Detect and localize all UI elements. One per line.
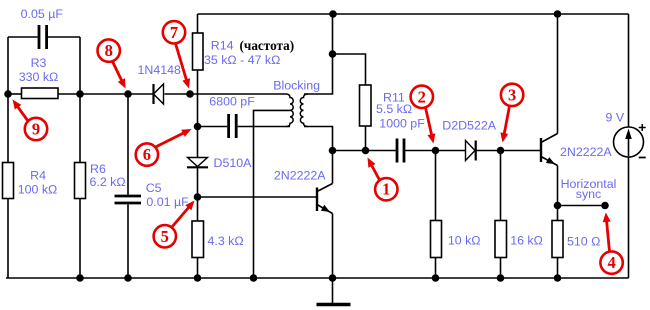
svg-text:2N2222A: 2N2222A	[274, 169, 326, 183]
wire: 6800pF to transformer bottom terminal	[238, 126, 290, 128]
junction node dot 16 at 80,278	[76, 274, 84, 282]
svg-text:R6: R6	[90, 162, 106, 176]
callout circle 5	[154, 225, 176, 247]
transistor Q2 collector diagonal	[541, 134, 558, 143]
junction node dot 9 at 197.5,197	[194, 193, 202, 201]
svg-text:(частота): (частота)	[240, 38, 295, 53]
wire: 9V bottom to bus	[628, 156, 630, 278]
transistor Q2 emitter diagonal with arrow	[541, 157, 558, 166]
wire: R14 top lead	[197, 14, 199, 33]
transistor Q1 emitter diagonal with arrow	[317, 205, 333, 214]
svg-text:0.05 µF: 0.05 µF	[21, 7, 64, 21]
svg-text:16 kΩ: 16 kΩ	[510, 234, 543, 248]
svg-text:R14: R14	[211, 38, 234, 52]
callout arrow 1	[371, 163, 380, 180]
resistor R4 100k	[3, 163, 14, 199]
svg-text:7: 7	[170, 23, 178, 42]
svg-text:D510A: D510A	[214, 156, 253, 170]
9V internal arrow	[628, 133, 630, 156]
svg-text:6800 pF: 6800 pF	[209, 95, 255, 109]
junction node dot 17 at 128,278	[124, 274, 132, 282]
junction node dot 1 at 8,94	[4, 90, 12, 98]
wire: 16k bottom lead	[500, 258, 502, 279]
wire: node 1 line to 1000pF	[333, 150, 396, 152]
callout circle 8	[98, 39, 120, 61]
svg-text:D2D522A: D2D522A	[442, 118, 496, 132]
wire: node 3 vertical to 16k	[500, 151, 502, 221]
wire: main node between 1N4148 and transformer	[165, 93, 287, 95]
wire: top-left loop right vertical (x=80)	[79, 37, 81, 163]
svg-text:330 kΩ: 330 kΩ	[19, 70, 59, 84]
transformer T1 right winding	[300, 94, 308, 127]
resistor R11 5.5k	[360, 85, 372, 126]
svg-text:1000 pF: 1000 pF	[379, 117, 425, 131]
transformer T1 Blocking: left winding (two sections)	[286, 94, 293, 127]
svg-text:C5: C5	[146, 181, 162, 195]
transistor Q1 2N2222A base bar	[316, 188, 318, 212]
ground symbol	[317, 278, 351, 305]
resistor 510 ohm	[552, 221, 563, 258]
wire: D2D522A cathode to Q2 base	[477, 150, 541, 152]
svg-text:2N2222A: 2N2222A	[560, 145, 612, 159]
junction node dot 20 at 332.5,278	[329, 274, 337, 282]
svg-text:1: 1	[382, 180, 390, 199]
svg-text:9 V: 9 V	[606, 111, 625, 125]
callout arrow 8	[113, 62, 123, 83]
junction node dot 15 at 605,205.5	[601, 202, 609, 210]
callout circle 3	[501, 84, 523, 106]
junction node dot 22 at 500.5,278	[497, 274, 505, 282]
wire: Q1 base line from node 5	[198, 196, 317, 198]
wire: C5 bottom lead to bus	[127, 204, 129, 278]
wire: R14 bottom lead	[197, 70, 199, 94]
junction node dot 3 at 128,94	[124, 90, 132, 98]
junction node dot 12 at 435.5,150.5	[432, 147, 440, 155]
wire: 6800pF branch from node 6	[198, 126, 228, 128]
junction node dot 23 at 557.5,278	[554, 274, 562, 282]
callout arrow 5	[172, 206, 191, 228]
resistor R14 35k-47k	[193, 33, 204, 70]
wire: Q1 collector vertical	[332, 151, 334, 184]
callout circle 2	[411, 86, 433, 108]
wire: 510 bottom lead	[557, 258, 559, 279]
wire: top-left loop top with 0.05uF gap	[8, 36, 38, 38]
svg-text:4: 4	[607, 253, 615, 272]
9V plus sign	[639, 124, 646, 131]
junction node dot 18 at 197.5,278	[194, 274, 202, 282]
svg-text:6.2 kΩ: 6.2 kΩ	[90, 175, 126, 189]
svg-text:9: 9	[32, 120, 40, 139]
svg-text:5: 5	[161, 227, 169, 246]
resistor 10k	[431, 221, 442, 258]
wire: R6 bottom lead to bus	[79, 199, 81, 279]
resistor 4.3k	[192, 221, 204, 258]
svg-text:100 kΩ: 100 kΩ	[18, 183, 58, 197]
wire: D510A cathode to node 5 junction	[197, 168, 199, 221]
wire: node 2 vertical to 10k	[435, 151, 437, 221]
capacitor 6800 pF	[229, 114, 237, 138]
callout circle 6	[136, 143, 158, 165]
wire: top rail y=14	[198, 13, 629, 15]
wire: horizontal sync stub	[558, 205, 606, 207]
svg-text:R4: R4	[30, 168, 46, 182]
wire: R11 top lead tee to x=332.5	[333, 54, 366, 85]
junction node dot 21 at 435.5,278	[432, 274, 440, 282]
wire: Q2 emitter vertical to sync node	[557, 166, 559, 221]
wire: transformer mid-tap line and vertical x=253.5 to bus	[254, 110, 291, 278]
svg-text:Blocking: Blocking	[273, 79, 320, 93]
transistor Q2 2N2222A base bar	[540, 138, 542, 162]
wire: ground bus y=278	[6, 277, 629, 279]
wire: R11 bottom lead	[365, 126, 367, 151]
wire: main node between R3 and 1N4148	[58, 93, 153, 95]
wire: 4.3k bottom lead to bus	[197, 258, 199, 279]
callout circle 4	[600, 251, 622, 273]
resistor R6 6.2k	[75, 163, 86, 199]
capacitor 1000 pF	[397, 139, 404, 163]
svg-text:8: 8	[105, 41, 113, 60]
wire: main horizontal node y=94 left section	[8, 93, 22, 95]
svg-text:1N4148: 1N4148	[138, 63, 182, 77]
svg-text:4.3 kΩ: 4.3 kΩ	[208, 234, 244, 248]
9V minus sign	[639, 157, 646, 159]
callout arrow 2	[426, 108, 433, 138]
wire: Q1 emitter vertical to bus	[332, 214, 334, 279]
resistor R3 330k	[22, 88, 59, 99]
callout circle 9	[25, 118, 47, 140]
junction node dot 2 at 80,94	[76, 90, 84, 98]
battery/source 9V circle	[614, 127, 644, 157]
junction node dot 5 at 333,14	[329, 10, 337, 18]
wire: R4 bottom lead to bus	[7, 199, 9, 279]
wire: vertical x=332.5 top rail to transformer right top	[304, 14, 333, 94]
svg-text:5.5 kΩ: 5.5 kΩ	[376, 102, 412, 116]
capacitor 0.05 uF (top-left)	[39, 25, 47, 49]
junction node dot 7 at 332.5,54	[329, 50, 337, 58]
svg-text:R3: R3	[31, 56, 47, 70]
junction node dot 6 at 557.5,14	[554, 10, 562, 18]
junction node dot 14 at 557.5,205.5	[554, 202, 562, 210]
capacitor C5 0.01uF	[115, 196, 142, 203]
svg-text:10 kΩ: 10 kΩ	[448, 234, 481, 248]
callout arrow 6	[155, 132, 186, 148]
callout arrow 7	[176, 44, 188, 83]
junction node dot 8 at 197.5,126.5	[194, 123, 202, 131]
wire: top-left loop left vertical (x=8)	[7, 37, 9, 163]
junction node dot 4 at 190,94	[186, 90, 194, 98]
svg-text:3: 3	[508, 85, 516, 104]
wire: vertical x=197.5 main node down to D510A	[197, 94, 199, 157]
wire: 1000pF to D2D522A	[405, 150, 465, 152]
resistor 16k	[495, 221, 507, 258]
callout arrow 9	[16, 105, 28, 121]
callout arrow 4	[606, 219, 609, 251]
svg-text:510 Ω: 510 Ω	[567, 235, 600, 249]
svg-text:35 kΩ - 47 kΩ: 35 kΩ - 47 kΩ	[204, 53, 280, 67]
wire: Q2 collector vertical to top rail	[557, 14, 559, 134]
callout circle 7	[163, 21, 185, 43]
wire: 9V branch from top rail down	[628, 14, 630, 128]
junction node dot 10 at 332.5,150.5	[329, 147, 337, 155]
svg-text:6: 6	[143, 145, 151, 164]
callout arrow 3	[504, 106, 510, 136]
svg-text:sync: sync	[576, 187, 601, 201]
diode D510A (cathode bottom)	[187, 158, 208, 168]
callout circle 1	[375, 178, 397, 200]
wire: vertical x=128 from main node to C5	[127, 94, 129, 195]
transistor Q1 collector diagonal	[317, 184, 333, 192]
junction node dot 13 at 500.5,150.5	[497, 147, 505, 155]
wire: 10k bottom lead	[435, 258, 437, 279]
svg-text:2: 2	[418, 87, 426, 106]
junction node dot 11 at 365.5,150.5	[362, 147, 370, 155]
diode D2D522A (cathode right)	[466, 141, 476, 161]
svg-text:0.01 µF: 0.01 µF	[146, 195, 189, 209]
wire: transformer right bottom to collector node	[304, 127, 333, 151]
diode 1N4148 (cathode left)	[154, 84, 164, 104]
junction node dot 19 at 253.5,278	[250, 274, 258, 282]
